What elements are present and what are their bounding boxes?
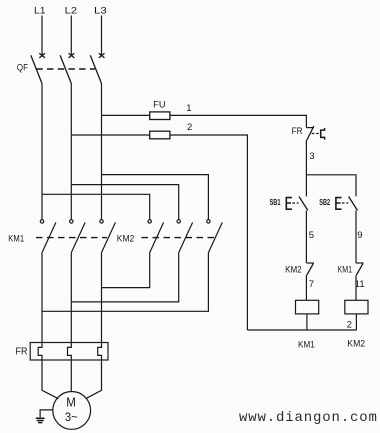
svg-text:SB1: SB1 — [270, 197, 281, 207]
svg-text:5: 5 — [309, 230, 314, 241]
wire motor lead V — [70, 360, 72, 391]
svg-text:KM1: KM1 — [338, 264, 353, 274]
thermal relay FR NC contact — [306, 126, 324, 140]
wire 2 (L2 tap to FU2) — [71, 134, 149, 136]
wire crossover top (L1 to KM2 pole 1) — [42, 194, 150, 219]
svg-text:2: 2 — [347, 319, 352, 330]
contactor KM2 pole 2 — [177, 220, 193, 253]
svg-text:3~: 3~ — [65, 410, 78, 424]
svg-text:2: 2 — [187, 122, 192, 133]
motor M 3~ — [53, 392, 91, 430]
pushbutton SB1 — [286, 197, 308, 211]
svg-text:3: 3 — [309, 151, 314, 162]
thermal relay FR heater element 3 — [98, 343, 102, 361]
wire FR contact to tee — [305, 140, 307, 196]
wire coil KM2 to neutral — [355, 314, 357, 330]
fuse FU1 — [150, 112, 170, 120]
wire motor lead U — [42, 360, 58, 399]
wire 1 (L3 tap to FU1) — [102, 114, 150, 116]
wire crossover bottom (KM2 pole 2 to phase B) — [71, 253, 178, 302]
svg-text:L3: L3 — [94, 5, 107, 15]
contactor KM1 pole 1 — [40, 220, 56, 253]
wire motor lead W — [86, 360, 102, 399]
contactor KM2 linkage — [142, 237, 215, 239]
wire KM1 NC to coil KM2 — [355, 275, 357, 300]
wire 2 (FU2 to control neutral) — [170, 135, 248, 330]
wire phase A (QF to KM1 pole 1) — [41, 84, 43, 220]
wire crossover bottom (KM2 pole 1 to phase C) — [102, 253, 150, 288]
coil KM1 — [296, 300, 319, 314]
thermal relay FR heater element 1 — [38, 343, 42, 361]
wire KM1 pole 3 to FR heater 3 — [101, 253, 103, 343]
coil KM2 — [345, 300, 368, 314]
ground — [36, 410, 53, 423]
wire KM1 pole 2 to FR heater 2 — [70, 253, 72, 343]
wire phase B (QF to KM1 pole 2) — [70, 84, 72, 220]
svg-text:QF: QF — [17, 63, 29, 73]
breaker QF pole 3 — [90, 53, 104, 83]
fuse FU2 — [150, 131, 170, 139]
svg-text:L2: L2 — [65, 5, 77, 15]
contactor KM2 pole 1 — [148, 220, 164, 253]
svg-text:KM2: KM2 — [117, 234, 135, 244]
wire L2 incoming — [70, 16, 72, 57]
svg-text:M: M — [66, 395, 76, 410]
svg-text:1: 1 — [186, 103, 191, 114]
thermal relay FR heater element 2 — [68, 343, 72, 361]
svg-text:7: 7 — [309, 279, 314, 290]
interlock contact KM1 (NC) — [356, 263, 364, 275]
wire phase C (QF to KM1 pole 3) — [101, 84, 103, 220]
contactor KM2 pole 3 — [207, 220, 223, 253]
svg-text:KM1: KM1 — [8, 234, 24, 244]
svg-text:FU: FU — [153, 100, 165, 110]
svg-text:KM2: KM2 — [285, 264, 302, 274]
wire neutral bus — [247, 329, 356, 331]
wire SB2 to KM1 NC contact — [355, 211, 357, 264]
wire crossover top (L3 to KM2 pole 3) — [102, 175, 209, 220]
wire SB1 to KM2 NC contact — [305, 211, 307, 264]
wire 1 (FU1 to FR contact) — [170, 115, 307, 127]
wire L3 incoming — [101, 16, 103, 57]
svg-text:KM2: KM2 — [347, 338, 365, 348]
svg-text:11: 11 — [355, 279, 365, 290]
svg-text:KM1: KM1 — [298, 340, 315, 350]
wire L1 incoming — [41, 16, 43, 57]
breaker QF pole 1 — [31, 53, 45, 83]
wire KM2 NC to coil KM1 — [305, 275, 307, 300]
wire crossover bottom (KM2 pole 3 to phase A) — [42, 253, 208, 312]
wire coil KM1 to neutral — [306, 314, 308, 330]
interlock contact KM2 (NC) — [306, 263, 314, 275]
breaker QF linkage — [36, 68, 95, 70]
svg-text:SB2: SB2 — [319, 197, 330, 207]
thermal relay FR heater box — [30, 343, 108, 361]
contactor KM1 linkage — [36, 237, 107, 239]
svg-text:FR: FR — [16, 346, 28, 357]
svg-text:L1: L1 — [34, 5, 46, 15]
svg-text:FR: FR — [292, 126, 303, 136]
contactor KM1 pole 3 — [100, 220, 116, 253]
wire crossover top (L2 to KM2 pole 2) — [71, 185, 178, 220]
breaker QF pole 2 — [60, 53, 74, 83]
wire tee to SB2 branch — [306, 175, 356, 197]
pushbutton SB2 — [336, 197, 358, 211]
svg-text:www.diangon.com: www.diangon.com — [239, 410, 378, 426]
svg-text:9: 9 — [357, 230, 362, 241]
contactor KM1 pole 2 — [70, 220, 86, 253]
wire KM1 pole 1 to FR heater 1 — [41, 253, 43, 343]
